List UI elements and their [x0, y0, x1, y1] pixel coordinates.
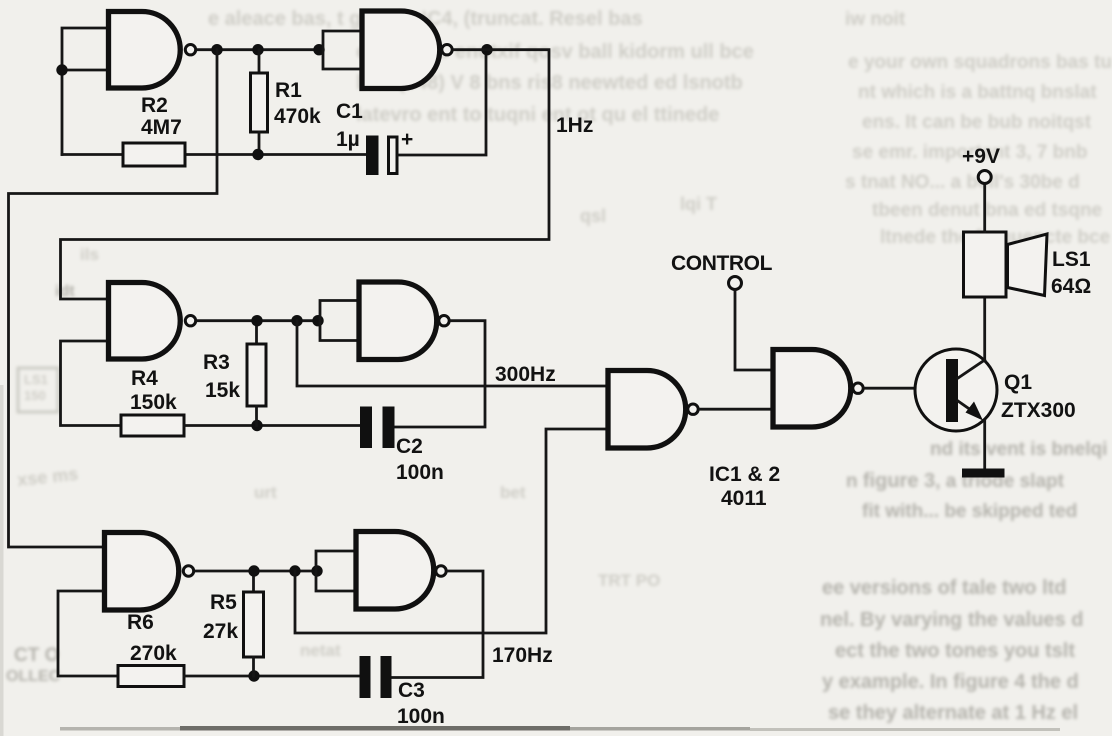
node terminal +9V — [978, 171, 991, 184]
svg-text:R5: R5 — [210, 591, 237, 614]
svg-text:netat: netat — [300, 641, 341, 660]
svg-text:fit with... be skipped ted: fit with... be skipped ted — [862, 501, 1077, 522]
wire gate IC3a lower input feedback via R6 — [58, 591, 118, 676]
wire 170Hz line to combiner gate — [295, 429, 608, 633]
node junction gate2 output — [481, 44, 492, 55]
svg-text:ee versions of tale two ltd: ee versions of tale two ltd — [822, 577, 1067, 599]
node junction R3 bottom — [251, 420, 262, 431]
svg-text:ens. It can be bub noitqst: ens. It can be bub noitqst — [862, 112, 1092, 133]
svg-text:4011: 4011 — [721, 487, 767, 510]
node junction bottom rail gate input — [311, 565, 322, 576]
resistor R4 — [121, 415, 184, 436]
label C1 1u plus — [336, 100, 413, 151]
label 1Hz — [556, 114, 593, 137]
svg-text:C1: C1 — [336, 100, 363, 123]
svg-text:iw noit: iw noit — [845, 9, 906, 30]
node junction gate1 lower input — [56, 64, 67, 75]
transistor Q1 circle — [915, 349, 997, 431]
nand gate IC1a with output bubble — [109, 12, 196, 89]
transistor Q1 collector stroke — [958, 360, 985, 378]
label CONTROL — [671, 252, 773, 275]
wire top oscillator output rail — [198, 48, 323, 51]
svg-text:idt: idt — [55, 283, 75, 300]
nand gate IC4b with output bubble — [773, 350, 863, 428]
svg-text:LS1: LS1 — [24, 372, 48, 387]
svg-text:27k: 27k — [203, 620, 238, 643]
svg-text:R1: R1 — [275, 79, 302, 102]
wire gate2 input bracket — [323, 31, 362, 69]
svg-text:15k: 15k — [205, 379, 240, 402]
ground — [962, 469, 1005, 478]
label LS1 64ohm — [1051, 248, 1091, 298]
wire gate IC3b output down to C3 — [392, 571, 484, 678]
node terminal CONTROL — [729, 277, 742, 290]
svg-text:y example. In figure 4 the d: y example. In figure 4 the d — [822, 671, 1079, 693]
wire gate1 output to bottom oscillator left drop — [9, 50, 218, 547]
svg-text:CONTROL: CONTROL — [671, 252, 773, 275]
svg-text:ZTX300: ZTX300 — [1001, 399, 1076, 422]
wire battery to speaker — [983, 184, 986, 232]
wire gate IC2a lower input feedback via R4 — [61, 341, 122, 426]
label R2 4M7 — [141, 94, 182, 139]
svg-text:4M7: 4M7 — [141, 116, 182, 139]
resistor R5 — [244, 571, 264, 676]
svg-text:tbeen denut bna ed tsqne: tbeen denut bna ed tsqne — [872, 200, 1102, 221]
nand gate IC4a with output bubble — [608, 371, 698, 449]
svg-text:latevro ent to tuqni ent ot qu: latevro ent to tuqni ent ot qu el ttined… — [356, 104, 719, 126]
label +9V — [962, 145, 1000, 168]
svg-text:n figure 3, a triode slapt: n figure 3, a triode slapt — [846, 470, 1065, 492]
node junction top rail drop — [211, 44, 222, 55]
svg-text:nd its vent is bnelqi: nd its vent is bnelqi — [930, 439, 1107, 460]
svg-text:LS1: LS1 — [1052, 248, 1091, 271]
svg-text:R2: R2 — [141, 94, 168, 117]
svg-text:R6: R6 — [127, 611, 154, 634]
node junction middle rail R3 — [251, 315, 262, 326]
svg-text:C2: C2 — [396, 435, 423, 458]
svg-text:IC1 & 2: IC1 & 2 — [709, 463, 780, 486]
node junction R1 bottom — [252, 149, 263, 160]
node junction bottom rail 170Hz tap — [289, 565, 300, 576]
svg-text:100n: 100n — [396, 461, 444, 484]
wire collector to speaker — [983, 297, 986, 360]
nand gate IC3a with output bubble — [105, 533, 194, 611]
svg-text:qsl: qsl — [580, 206, 606, 226]
capacitor C2 — [360, 407, 395, 449]
svg-text:Q1: Q1 — [1004, 371, 1032, 394]
svg-text:nt which is a battnq bnslat: nt which is a battnq bnslat — [858, 82, 1097, 103]
svg-text:150k: 150k — [130, 391, 177, 414]
wire emitter to ground — [983, 421, 986, 470]
resistor R2 — [123, 143, 185, 166]
wire bottom oscillator output rail — [196, 570, 316, 573]
label R3 15k — [203, 351, 240, 402]
node junction R1 top — [252, 44, 263, 55]
svg-text:e your own squadrons bas tu: e your own squadrons bas tu — [848, 52, 1112, 73]
svg-text:urt: urt — [254, 483, 277, 502]
resistor R6 — [118, 666, 184, 687]
label Q1 ZTX300 — [1001, 371, 1076, 422]
svg-text:470k: 470k — [274, 105, 321, 128]
svg-text:lqi T: lqi T — [680, 194, 717, 214]
svg-text:150: 150 — [24, 388, 46, 403]
nand gate IC2b with output bubble — [359, 282, 449, 360]
label R6 270k — [127, 611, 177, 665]
resistor R1 — [251, 50, 268, 155]
svg-text:bet: bet — [500, 483, 526, 502]
node junction middle rail gate input — [312, 315, 323, 326]
wire base drive — [865, 387, 946, 390]
node junction bottom rail R5 — [248, 565, 259, 576]
svg-text:170Hz: 170Hz — [492, 644, 553, 667]
svg-text:s tnat NO... a bell's 30be d: s tnat NO... a bell's 30be d — [845, 172, 1080, 193]
svg-text:ect the two tones you tslt: ect the two tones you tslt — [835, 640, 1075, 662]
transistor Q1 base bar — [946, 359, 958, 422]
transistor Q1 emitter stroke with arrow — [958, 401, 983, 421]
nand gate IC3b with output bubble — [356, 532, 446, 610]
svg-text:R4: R4 — [131, 367, 158, 390]
label C2 100n — [396, 435, 444, 484]
resistor R3 — [247, 321, 266, 426]
svg-text:+9V: +9V — [962, 145, 1000, 168]
svg-text:C3: C3 — [398, 679, 425, 702]
wire bottom rail to C3 — [184, 675, 360, 678]
label 300Hz — [495, 363, 556, 386]
wire gate IC2b input bracket — [320, 301, 359, 341]
svg-text:CT O: CT O — [14, 645, 59, 666]
label 170Hz — [492, 644, 553, 667]
svg-text:1µ: 1µ — [336, 128, 360, 151]
nand gate IC1b with output bubble — [362, 11, 452, 89]
wire top oscillator feedback bottom — [62, 153, 366, 156]
svg-text:R3: R3 — [203, 351, 230, 374]
svg-text:nel. By varying the values d: nel. By varying the values d — [820, 609, 1083, 631]
svg-text:300Hz: 300Hz — [495, 363, 556, 386]
wire gate IC3b input bracket — [316, 551, 356, 591]
wire 300Hz line to combiner gate — [297, 321, 608, 386]
wire gate1 input tie and feedback drop — [62, 28, 105, 155]
nand gate IC2a with output bubble — [109, 283, 196, 360]
svg-text:se they alternate at 1 Hz el: se they alternate at 1 Hz el — [828, 702, 1078, 724]
label R4 150k — [130, 367, 177, 414]
svg-text:64Ω: 64Ω — [1051, 275, 1091, 298]
loudspeaker LS1 horn — [1008, 234, 1048, 296]
label IC1 & 2 4011 — [709, 463, 780, 510]
svg-text:ils: ils — [80, 245, 99, 264]
wire gate IC2b output down to C2 — [395, 321, 486, 427]
wire C1 to gate2 output node — [399, 50, 487, 155]
node junction middle rail 300Hz tap — [291, 315, 302, 326]
wire 1Hz line to middle oscillator — [61, 50, 550, 299]
wire middle bottom rail to C2 — [184, 424, 360, 427]
wire CONTROL to gate — [735, 290, 773, 370]
label R1 470k — [274, 79, 321, 128]
wire combiner1 output to gate2 — [700, 408, 773, 411]
svg-text:OLLEC: OLLEC — [6, 668, 61, 685]
node junction R5 bottom — [248, 670, 259, 681]
node junction gate IC1b input — [313, 44, 324, 55]
svg-text:100n: 100n — [397, 705, 445, 728]
svg-text:TRT PO: TRT PO — [598, 571, 660, 590]
svg-text:270k: 270k — [130, 642, 177, 665]
svg-text:1Hz: 1Hz — [556, 114, 593, 137]
wire middle oscillator output rail — [198, 319, 320, 322]
capacitor C3 — [360, 656, 392, 698]
label R5 27k — [203, 591, 238, 643]
capacitor C1 polarized — [366, 136, 397, 176]
svg-text:+: + — [401, 128, 413, 151]
loudspeaker LS1 body — [964, 232, 1007, 297]
label C3 100n — [397, 679, 445, 728]
